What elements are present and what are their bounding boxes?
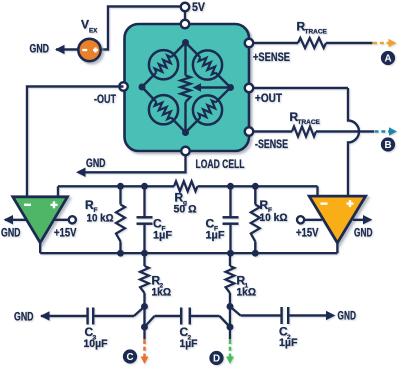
GND arrow (top left) [30,44,65,56]
wire bridge arm bottom-right [186,88,231,133]
junction (bottom bus) [227,250,234,257]
wire +SENSE [253,42,373,44]
node bridge bottom [182,129,189,136]
junction node D (lower) [227,324,234,331]
junction (bottom bus) [141,250,148,257]
wire bridge arm top-right [186,43,231,88]
svg-text:D: D [213,354,220,365]
wire top bus (left) [58,185,174,187]
junction (top bus) [227,183,234,190]
svg-text:GND: GND [338,311,357,323]
node A [381,51,395,65]
wire bus to U2 - input [316,186,318,196]
GND arrow (bottom left) [14,311,50,323]
junction node D (upper) [227,303,234,310]
capacitor C_F (right) [206,186,239,253]
junction (bottom bus) [117,250,124,257]
junction (top bus) [117,183,124,190]
svg-text:C: C [126,352,133,363]
resistor R_TRACE (upper) [297,20,328,49]
wire +OUT to U2 (with hop) [348,88,359,196]
strain gauge (top-right) [193,50,222,79]
wire C_2 to node D [220,316,231,327]
dashed arrow to A [373,39,397,48]
resistor R_2 [140,253,171,306]
wire node C to C_2 [145,316,182,327]
+15V pin (U2) [296,216,322,239]
strain gauge (bottom-left) [149,95,178,124]
terminal +OUT [245,84,282,105]
wire V_EX to 5V node [102,7,181,50]
node C [123,349,137,363]
svg-text:GND: GND [1,228,21,240]
svg-text:-OUT: -OUT [94,94,116,106]
wire top bus (right) [198,185,318,187]
variable resistance (center) [181,43,191,133]
svg-text:+15V: +15V [54,228,77,240]
op-amp U1 (green) [13,197,68,243]
resistor R_1 [226,253,257,306]
svg-text:EX: EX [89,28,98,35]
svg-text:10 kΩ: 10 kΩ [260,212,288,224]
svg-text:1µF: 1µF [279,337,298,349]
wire bridge arm bottom-left [142,87,186,133]
terminal -SENSE [245,127,288,151]
capacitor C_3 [84,308,135,351]
GND arrow (bottom right) [326,311,356,323]
resistor R_F (right) [251,186,288,253]
wire bridge arm top-left [142,43,186,88]
svg-text:-SENSE: -SENSE [255,139,288,151]
svg-text:LOAD CELL: LOAD CELL [196,159,245,171]
wire C_3 to node C [134,307,145,317]
strain gauge (bottom-right) [193,95,222,124]
junction (top bus) [141,183,148,190]
source V_EX [78,20,100,62]
node bridge right [227,84,234,91]
svg-text:1µF: 1µF [180,338,198,350]
GND arrow (U2) [353,215,373,239]
wire U1 output [39,243,41,254]
svg-text:+SENSE: +SENSE [253,52,290,64]
wire bottom bus [40,252,337,254]
capacitor C_2 (right) [279,307,327,349]
resistor R_g [174,181,198,215]
wire +OUT [253,87,348,89]
svg-text:TRACE: TRACE [305,29,328,36]
wire -OUT to U1 [27,87,124,197]
resistor R_F (left) [85,186,125,253]
terminal 5V (top) [181,20,190,29]
svg-text:50 Ω: 50 Ω [174,204,197,216]
capacitor C_2 (middle) [180,308,220,351]
dashed arrow to D [226,340,234,364]
junction node C (upper) [141,303,148,310]
wire arrow to variable resistance [193,83,231,92]
GND arrow (U1) [1,215,27,239]
node 5V [181,0,205,14]
+15V pin (U1) [54,216,77,239]
junction (bottom bus) [252,250,259,257]
svg-text:A: A [384,54,391,65]
svg-text:5V: 5V [192,0,205,14]
svg-text:1µF: 1µF [153,230,172,242]
svg-text:GND: GND [14,312,34,324]
wire 5V to load cell [184,11,186,24]
dashed arrow to B [375,127,398,136]
svg-text:GND: GND [86,158,106,170]
svg-text:10 kΩ: 10 kΩ [87,213,114,225]
terminal -OUT [94,82,128,106]
wire node D column [229,307,231,340]
capacitor C_F (left) [137,186,173,253]
op-amp U2 (amber) [309,196,365,243]
node bridge left [139,84,146,91]
junction node C (lower) [141,324,148,331]
load cell body [125,24,250,151]
node bridge top [182,39,189,46]
wire U2 output [336,243,338,253]
junction (top bus) [252,183,259,190]
svg-text:10µF: 10µF [84,338,108,350]
svg-text:1kΩ: 1kΩ [237,287,257,299]
wire -SENSE [253,130,374,132]
svg-text:1kΩ: 1kΩ [152,287,172,299]
wire GND to V_EX source [56,48,78,50]
svg-text:GND: GND [30,44,50,56]
svg-text:TRACE: TRACE [298,119,321,126]
resistor R_TRACE (lower) [290,110,321,137]
svg-text:B: B [384,140,391,151]
svg-text:+15V: +15V [296,228,319,240]
GND arrow (load cell) [76,158,106,177]
wire node D to C_2 (right) [230,307,281,316]
terminal bottom (load cell) [181,147,244,171]
wire node C column [143,307,145,340]
strain gauge (top-left) [149,50,178,79]
svg-text:1µF: 1µF [206,230,225,242]
dashed arrow to C [141,340,149,364]
wire GND to C_3 [41,315,87,317]
terminal +SENSE [245,39,291,64]
node D [209,351,223,365]
svg-text:+OUT: +OUT [255,93,282,105]
node B [381,137,395,151]
svg-text:GND: GND [354,228,373,240]
wire load cell to GND [78,155,186,172]
wire U1 + input riser [57,186,59,196]
